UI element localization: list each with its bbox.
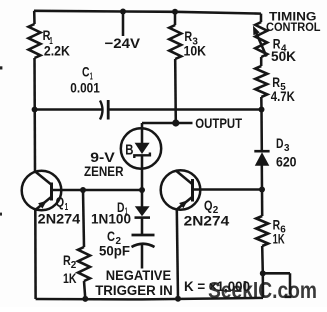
- svg-text:1K: 1K: [273, 230, 285, 246]
- svg-text:2N274: 2N274: [184, 212, 230, 228]
- svg-text:50K: 50K: [271, 48, 296, 64]
- svg-text:R: R: [63, 252, 71, 268]
- svg-text:1N100: 1N100: [91, 211, 131, 226]
- svg-text:2N274: 2N274: [38, 210, 81, 226]
- svg-text:R: R: [184, 28, 192, 44]
- svg-text:Q: Q: [204, 197, 213, 213]
- svg-text:0.001: 0.001: [70, 80, 100, 95]
- svg-text:4.7K: 4.7K: [271, 88, 295, 104]
- svg-text:K = ×1,000: K = ×1,000: [184, 279, 250, 294]
- svg-text:ZENER: ZENER: [84, 163, 124, 179]
- svg-text:OUTPUT: OUTPUT: [195, 115, 242, 131]
- svg-text:B: B: [125, 141, 133, 158]
- svg-text:TRIGGER IN: TRIGGER IN: [95, 283, 173, 298]
- svg-text:2.2K: 2.2K: [44, 42, 70, 58]
- svg-text:Q: Q: [56, 194, 65, 210]
- svg-text:50pF: 50pF: [99, 242, 130, 258]
- svg-text:CONTROL: CONTROL: [266, 20, 321, 34]
- svg-text:1K: 1K: [63, 270, 77, 286]
- svg-text:620: 620: [276, 153, 297, 169]
- svg-text:−24V: −24V: [105, 35, 141, 51]
- svg-text:NEGATIVE: NEGATIVE: [106, 268, 171, 283]
- svg-text:10K: 10K: [184, 43, 207, 59]
- svg-text:C: C: [82, 65, 90, 80]
- svg-text:D: D: [276, 135, 284, 151]
